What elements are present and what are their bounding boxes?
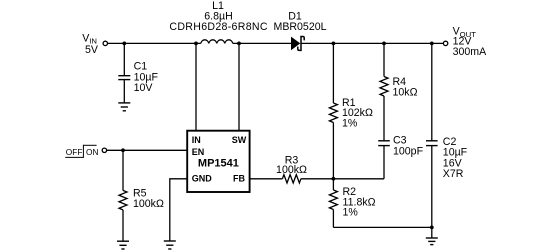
- svg-text:100kΩ: 100kΩ: [133, 198, 164, 210]
- wire EN to IC: [107, 149, 187, 151]
- svg-text:FB: FB: [233, 174, 245, 184]
- R2 value label: [343, 186, 376, 218]
- wire R2 bottom: [332, 210, 334, 228]
- svg-text:100kΩ: 100kΩ: [276, 164, 307, 176]
- junction L1 right / SW node: [237, 42, 241, 46]
- svg-text:C3: C3: [393, 134, 407, 146]
- svg-text:5V: 5V: [85, 44, 99, 56]
- wire ground stem: [431, 227, 433, 238]
- wire C2 bottom: [431, 146, 433, 227]
- svg-text:300mA: 300mA: [453, 46, 487, 58]
- capacitor C2: [426, 141, 438, 146]
- wire R3 to C3 node: [301, 178, 384, 180]
- IC U1 MP1541 box: [187, 131, 249, 192]
- wire R5 bottom: [122, 210, 124, 241]
- wire C3 bottom: [383, 146, 385, 179]
- capacitor C1: [118, 76, 130, 80]
- svg-text:EN: EN: [192, 147, 205, 157]
- R3 value label: [276, 154, 307, 176]
- node VOUT label: [453, 26, 487, 59]
- wire SW pin vertical: [238, 43, 240, 130]
- terminal VOUT: [443, 41, 447, 45]
- wire R1 top: [332, 43, 334, 103]
- wire R4 top: [383, 43, 385, 76]
- svg-text:10kΩ: 10kΩ: [393, 86, 418, 98]
- wire IN pin vertical: [195, 43, 197, 130]
- resistor R2: [329, 190, 337, 210]
- svg-text:SW: SW: [232, 135, 247, 145]
- wire R5 top: [122, 150, 124, 190]
- ground IC GND: [164, 241, 176, 249]
- ground R5: [117, 241, 129, 249]
- junction C1 tap: [122, 42, 126, 46]
- svg-text:10V: 10V: [134, 82, 154, 94]
- terminal VIN: [103, 41, 107, 45]
- node VIN label: [82, 32, 99, 56]
- wire C1 bottom: [123, 80, 125, 103]
- resistor R5: [119, 190, 127, 210]
- wire ground rail: [333, 226, 431, 228]
- ground C2 rail: [426, 238, 438, 245]
- junction R5 tap: [121, 148, 125, 152]
- terminal EN: [102, 148, 106, 152]
- svg-text:1%: 1%: [343, 206, 359, 218]
- svg-text:IN: IN: [192, 135, 201, 145]
- wire FB to R3: [250, 178, 283, 180]
- svg-text:ON: ON: [86, 147, 98, 157]
- svg-text:1%: 1%: [342, 117, 358, 129]
- resistor R3: [282, 175, 301, 183]
- diode D1: [291, 37, 304, 51]
- junction C2 tap: [430, 42, 434, 46]
- wire VIN to L1: [108, 42, 201, 44]
- C3 value label: [393, 134, 424, 157]
- svg-text:GND: GND: [192, 174, 213, 184]
- C2 value label: [443, 136, 468, 180]
- C1 value label: [134, 61, 159, 95]
- junction R1 tap: [332, 42, 336, 46]
- inductor L1: [201, 40, 233, 44]
- resistor R4: [380, 77, 388, 97]
- OFF/ON control label: [65, 145, 98, 158]
- ground C1: [118, 103, 130, 111]
- R4 value label: [393, 76, 418, 99]
- wire D1 to VOUT: [301, 42, 443, 44]
- wire GND pin: [170, 179, 187, 241]
- wire C1 top: [123, 43, 125, 75]
- svg-text:100pF: 100pF: [393, 146, 424, 158]
- wire R4 to C3: [383, 96, 385, 140]
- junction FB node: [332, 177, 336, 181]
- L1 value label: [169, 0, 267, 33]
- svg-text:OFF: OFF: [66, 147, 83, 157]
- capacitor C3: [378, 141, 390, 146]
- wire L1 to D1: [233, 42, 292, 44]
- svg-text:CDRH6D28-6R8NC: CDRH6D28-6R8NC: [169, 21, 267, 33]
- D1 label: [274, 10, 327, 32]
- junction ground rail: [430, 226, 434, 230]
- wire C2 top: [431, 43, 433, 140]
- R5 value label: [133, 187, 164, 210]
- wire R2 top: [332, 179, 334, 190]
- svg-text:MP1541: MP1541: [198, 158, 239, 170]
- junction L1 left / IN node: [194, 42, 198, 46]
- junction R4 tap: [382, 42, 386, 46]
- resistor R1: [329, 103, 337, 123]
- R1 value label: [342, 97, 373, 130]
- svg-text:MBR0520L: MBR0520L: [274, 21, 327, 33]
- svg-text:X7R: X7R: [443, 168, 464, 180]
- wire R1 bottom: [332, 123, 334, 179]
